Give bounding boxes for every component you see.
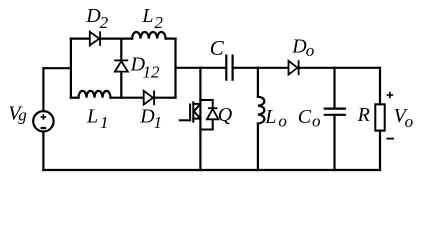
svg-text:L: L <box>86 105 98 127</box>
svg-text:1: 1 <box>100 113 109 132</box>
svg-text:2: 2 <box>154 13 163 32</box>
svg-text:12: 12 <box>143 62 161 81</box>
svg-text:Q: Q <box>218 104 233 126</box>
svg-text:o: o <box>278 112 287 131</box>
svg-text:R: R <box>357 104 370 126</box>
svg-text:L: L <box>141 5 153 27</box>
svg-text:2: 2 <box>100 13 109 32</box>
svg-text:o: o <box>306 41 315 60</box>
svg-text:C: C <box>298 106 312 128</box>
svg-text:o: o <box>312 112 321 131</box>
svg-text:o: o <box>405 112 414 131</box>
svg-text:g: g <box>18 106 27 125</box>
svg-text:L: L <box>264 106 276 128</box>
svg-text:1: 1 <box>154 113 163 132</box>
svg-text:C: C <box>210 36 225 60</box>
